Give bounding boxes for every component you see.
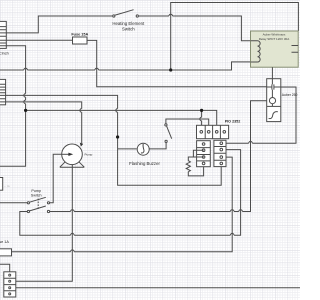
terminal strip TS1 xyxy=(4,272,16,297)
svg-text:Heating Element: Heating Element xyxy=(112,21,145,26)
wire: junction riser to top rail xyxy=(171,3,299,71)
pump switch S3 (DPST) xyxy=(27,197,49,212)
wire: line L to relay coil bottom (jumps at x=25.6,96.7) xyxy=(0,62,251,70)
wire: connector J1 pin3 to heating switch xyxy=(6,16,112,33)
wire: terminal strip pin3 to right edge xyxy=(11,287,300,289)
svg-text:Relay SPDT 120V 30A: Relay SPDT 120V 30A xyxy=(259,37,289,41)
wire: pump switch to pump motor feed xyxy=(0,202,27,204)
wire: connector J2 to buzzer branch and timer T4 (jump at y=110.4) xyxy=(6,95,222,185)
pump motor P1 xyxy=(60,144,85,167)
wire: buzzer switch to timer A2 xyxy=(166,119,209,132)
wire: fuse F1 output down and across to capacitor xyxy=(87,40,267,86)
fuse F1 15A xyxy=(73,37,88,44)
wire: timer B3 to fuse F2 (jump at x=72.35) xyxy=(12,157,233,252)
motor unit M1 (Kuber) xyxy=(267,67,281,121)
connector J1 (terminal block, cut at left edge) xyxy=(0,21,6,48)
motor circle xyxy=(269,98,275,104)
wire: buzzer right lead to switch xyxy=(149,141,166,149)
svg-text:Auber 250: Auber 250 xyxy=(282,93,298,97)
wire: neutral rail to timer A3 xyxy=(26,110,217,131)
junction node B (neutral rail left) xyxy=(24,109,27,112)
wire: left feed to terminal strip xyxy=(0,264,10,275)
relay U1 (Adler, green box) xyxy=(251,31,299,67)
wire: timer B1 to relay contact via capacitor rail (jump at x=250.5) xyxy=(223,87,296,143)
wire: motor unit to pump switch rail (jumps at x=240.6,232.2,72.35) xyxy=(50,101,270,212)
svg-text:Fuse 1A: Fuse 1A xyxy=(0,240,9,244)
buzzer switch S2 xyxy=(165,124,172,143)
timer left column terminals xyxy=(197,141,211,167)
svg-text:Switch: Switch xyxy=(122,27,135,32)
resistor R1 with timer wiring xyxy=(186,150,203,176)
relay coil xyxy=(251,41,261,62)
connection stubs xyxy=(271,67,273,106)
svg-text:Pump: Pump xyxy=(85,153,93,157)
junction node C (buzzer branch) xyxy=(116,135,119,138)
wire: pump motor down to terminal strip pin2 xyxy=(11,165,72,282)
connector J2 (terminal block, cut at left edge) xyxy=(0,79,6,104)
svg-text:Flashing Buzzer: Flashing Buzzer xyxy=(129,161,160,166)
svg-text:PIO 2352: PIO 2352 xyxy=(225,119,241,123)
heating element switch S1 xyxy=(113,10,139,17)
fuse F2 1A xyxy=(0,249,12,256)
wire: connector J1 pin5 to fuse F1 xyxy=(6,39,72,41)
arrow into pump center xyxy=(68,153,73,156)
arrow from top into pump xyxy=(80,143,83,147)
start switch sub-box xyxy=(267,105,281,107)
capacitor C1 inside xyxy=(267,84,281,89)
flashing buzzer B1 xyxy=(137,143,149,155)
svg-text:Switch: Switch xyxy=(31,193,42,197)
wire: timer B2 to pump switch lower left (jumps at x=232.2,72.35) xyxy=(20,150,241,236)
wire: junction drop to timer A1 (jump at y=119) xyxy=(201,110,203,131)
junction node D (timer feed) xyxy=(200,109,203,112)
junction node A (line L / riser) xyxy=(169,68,172,71)
svg-text:Fuse 15A: Fuse 15A xyxy=(71,33,88,37)
wire: buzzer left lead xyxy=(118,148,137,150)
jumper timer left B2-B3 xyxy=(193,150,203,157)
svg-text:Cinch: Cinch xyxy=(0,52,9,56)
svg-text:← to: ← to xyxy=(4,184,10,188)
svg-text:Pump: Pump xyxy=(31,189,41,193)
wire: connector J1 pin7 down left side (jumps at y=95.4,101.9) xyxy=(0,46,26,167)
wire: heating switch to relay coil top (jump at x=170.7) xyxy=(139,16,251,41)
wire: connector J2 to pump top feed (jump at y=110.4) xyxy=(6,102,82,143)
small box at left edge xyxy=(0,178,3,191)
timer right column terminals xyxy=(214,140,226,166)
timer PIO 2352 top row terminals xyxy=(197,125,229,138)
relay contact plates xyxy=(292,46,299,53)
